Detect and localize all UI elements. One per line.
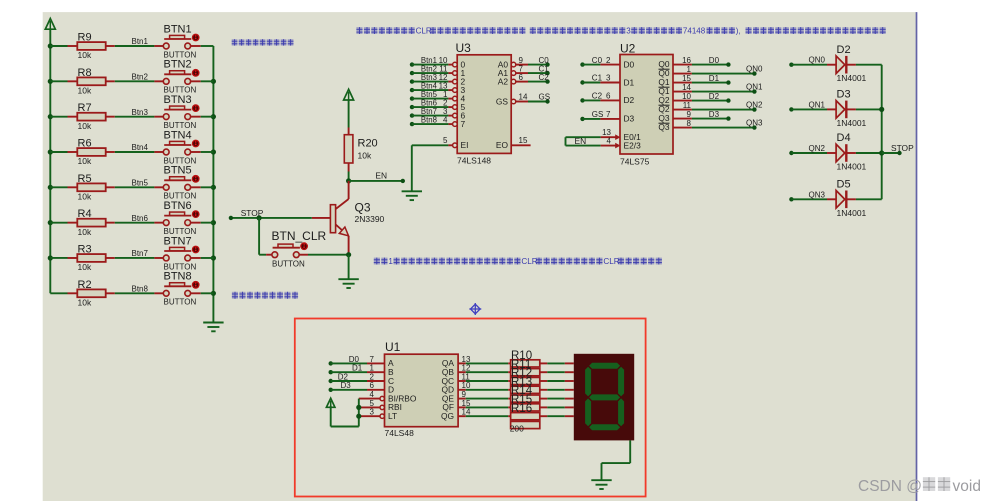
svg-text:R4: R4	[78, 208, 92, 220]
wire row1	[50, 45, 67, 47]
svg-text:R20: R20	[358, 138, 378, 150]
wire U2 Q output 3	[673, 91, 692, 93]
segment B top-right	[618, 367, 624, 397]
wire diode output rail	[881, 65, 883, 200]
wire row5	[50, 186, 67, 188]
svg-text:Btn6: Btn6	[132, 214, 149, 223]
ground button array	[203, 322, 223, 324]
svg-text:EN: EN	[375, 171, 387, 181]
svg-text:3: 3	[370, 408, 375, 417]
svg-text:Btn2: Btn2	[132, 73, 149, 82]
svg-text:9: 9	[462, 390, 467, 399]
button BTN_CLR	[272, 252, 278, 258]
svg-text:11: 11	[462, 372, 471, 381]
resistor R7	[77, 113, 105, 121]
wire U1 output QE	[458, 398, 466, 400]
wire U3 output A1	[511, 71, 516, 76]
wire resistor R16 to display	[540, 415, 548, 417]
svg-text:R9: R9	[78, 32, 92, 44]
power symbol VCC U1	[326, 398, 335, 407]
node right rail row8	[211, 291, 216, 296]
wire left power rail	[49, 29, 51, 293]
svg-text:D1: D1	[352, 364, 363, 373]
node left rail row5	[48, 185, 53, 190]
svg-text:BUTTON: BUTTON	[272, 260, 305, 269]
node left rail row4	[48, 149, 53, 154]
wire U2 D2 input	[580, 98, 584, 102]
svg-text:14: 14	[462, 408, 471, 417]
node rail D3	[879, 107, 884, 112]
resistor R8	[77, 77, 105, 85]
svg-text:Btn4: Btn4	[132, 143, 149, 152]
svg-text:R16: R16	[511, 403, 532, 415]
svg-text:R3: R3	[78, 243, 92, 255]
svg-text:BTN1: BTN1	[164, 23, 192, 35]
node STOP left end	[229, 216, 233, 220]
svg-text:QG: QG	[441, 411, 454, 421]
svg-text:U3: U3	[456, 41, 472, 55]
wire U1 LT/RBI tie	[358, 399, 360, 427]
svg-text:74148: 74148	[683, 27, 706, 36]
annotation high priority	[232, 292, 238, 299]
node EN junction	[346, 178, 351, 183]
svg-text:CSDN @: CSDN @	[858, 478, 922, 495]
IC U2 74LS75	[620, 55, 673, 155]
resistor R5	[77, 183, 105, 191]
svg-text:D2: D2	[837, 44, 851, 56]
svg-text:R2: R2	[78, 279, 92, 291]
wire U1 output QG	[458, 415, 466, 417]
svg-text:QN3: QN3	[746, 118, 763, 127]
svg-text:3: 3	[606, 74, 611, 83]
svg-text:CLR: CLR	[521, 257, 537, 266]
sheet border line	[916, 12, 918, 501]
svg-text:EO: EO	[496, 140, 509, 150]
svg-text:CLR: CLR	[603, 257, 619, 266]
wire U2 Q output 0	[673, 64, 692, 66]
wire STOP right	[882, 152, 900, 154]
svg-text:1N4001: 1N4001	[837, 162, 867, 172]
diode D2	[789, 62, 793, 66]
wire U3 input 4	[410, 96, 414, 100]
wire U1 input D0	[329, 361, 333, 365]
svg-text:D3: D3	[341, 381, 352, 390]
wire resistor R12 to display	[540, 380, 548, 382]
wire emitter to ground	[348, 255, 350, 280]
svg-text:6: 6	[370, 381, 375, 390]
wire U2 Q output 5	[673, 109, 692, 111]
svg-text:D3: D3	[709, 110, 720, 119]
svg-text:BTN_CLR: BTN_CLR	[272, 229, 327, 243]
svg-text:D3: D3	[624, 114, 635, 124]
wire U2 D1 input	[580, 80, 584, 84]
svg-text:BTN8: BTN8	[164, 271, 192, 283]
node right rail row7	[211, 255, 216, 260]
segment E bottom-left	[585, 398, 591, 426]
wire U2 Q output 6	[673, 118, 692, 120]
svg-text:D0: D0	[709, 56, 720, 65]
resistor R3	[77, 254, 105, 262]
diode D4	[789, 151, 793, 155]
resistor R9	[77, 42, 105, 50]
svg-text:74LS48: 74LS48	[385, 428, 415, 438]
power symbol VCC left	[45, 19, 55, 30]
svg-text:QN3: QN3	[809, 190, 826, 199]
svg-text:C2: C2	[592, 92, 603, 101]
wire resistor R11 to display	[540, 371, 548, 373]
svg-text:D2: D2	[624, 95, 635, 105]
svg-text:13: 13	[462, 355, 471, 364]
button BTN6	[163, 220, 169, 226]
svg-text:BTN3: BTN3	[164, 94, 192, 106]
svg-text:10k: 10k	[78, 121, 92, 131]
svg-text:10k: 10k	[358, 151, 372, 161]
svg-text:Btn5: Btn5	[132, 179, 149, 188]
svg-text:EN: EN	[575, 136, 587, 146]
svg-text:1: 1	[687, 65, 692, 74]
node right rail row3	[211, 114, 216, 119]
resistor R20	[344, 135, 353, 163]
transistor Q3	[348, 181, 350, 199]
svg-text:Btn8: Btn8	[132, 285, 149, 294]
wire U2 Q output 7	[673, 127, 692, 129]
segment C bottom-right	[618, 398, 624, 426]
node left rail row6	[48, 220, 53, 225]
IC U3 74LS148	[457, 55, 511, 154]
svg-text:U1: U1	[385, 340, 401, 354]
svg-text:8: 8	[687, 119, 692, 128]
wire VCC to R20	[348, 100, 350, 128]
svg-text:QN0: QN0	[746, 64, 763, 73]
svg-text:Btn1: Btn1	[132, 37, 149, 46]
svg-text:Btn7: Btn7	[132, 249, 149, 258]
svg-text:Q3: Q3	[355, 201, 371, 215]
wire U3 EO pin	[511, 144, 530, 146]
svg-text:4: 4	[607, 137, 612, 146]
svg-text:10: 10	[462, 381, 471, 390]
wire U1 LT pin	[380, 414, 384, 418]
svg-text:GS: GS	[539, 93, 551, 102]
ground Q3	[338, 278, 358, 280]
svg-text:5: 5	[370, 399, 375, 408]
wire U2 Q output 4	[673, 100, 692, 102]
wire EI to ground	[411, 145, 413, 191]
svg-text:R5: R5	[78, 173, 92, 185]
svg-text:D1: D1	[624, 77, 635, 87]
wire U2 D3 input	[580, 117, 584, 121]
wire U2 EN loop	[566, 136, 601, 138]
svg-text:QN2: QN2	[746, 100, 763, 109]
wire U2 D0 input	[580, 62, 584, 66]
svg-text:void: void	[953, 478, 981, 495]
svg-text:3: 3	[626, 27, 631, 36]
svg-text:R8: R8	[78, 67, 92, 79]
wire U1 output QA	[458, 362, 466, 364]
svg-text:BTN5: BTN5	[164, 165, 192, 177]
svg-text:7: 7	[461, 119, 466, 129]
wire U3 input 7	[410, 122, 414, 126]
button BTN8	[163, 290, 169, 296]
wire EN	[349, 180, 403, 182]
wire U3 output A0	[511, 62, 516, 67]
svg-text:15: 15	[462, 399, 471, 408]
svg-text:QN0: QN0	[809, 56, 826, 65]
svg-text:10k: 10k	[78, 192, 92, 202]
svg-text:D2: D2	[338, 372, 349, 381]
svg-text:R6: R6	[78, 137, 92, 149]
svg-text:10k: 10k	[78, 50, 92, 60]
svg-text:QN2: QN2	[809, 144, 826, 153]
svg-text:1: 1	[370, 364, 375, 373]
svg-text:74LS75: 74LS75	[620, 157, 650, 167]
button BTN7	[163, 255, 169, 261]
svg-text:2: 2	[606, 56, 611, 65]
wire row8	[50, 292, 67, 294]
svg-text:74LS148: 74LS148	[457, 156, 491, 166]
svg-text:EI: EI	[461, 140, 469, 150]
svg-text:10: 10	[682, 92, 691, 101]
svg-text:D0: D0	[624, 59, 635, 69]
svg-text:A2: A2	[498, 76, 509, 86]
wire U3 input 1	[410, 71, 414, 75]
annotation step2 line	[356, 27, 362, 34]
svg-text:R7: R7	[78, 102, 92, 114]
button BTN5	[163, 184, 169, 190]
node right rail row4	[211, 149, 216, 154]
svg-text:GS: GS	[592, 110, 604, 119]
svg-text:10k: 10k	[78, 227, 92, 237]
svg-text:C1: C1	[592, 74, 603, 83]
segment A top	[589, 363, 620, 369]
svg-text:5: 5	[443, 136, 448, 145]
button BTN1	[163, 43, 169, 49]
seven segment display	[574, 354, 634, 441]
svg-text:LT: LT	[388, 411, 397, 421]
svg-text:STOP: STOP	[241, 208, 264, 218]
svg-text:BUTTON: BUTTON	[164, 298, 197, 307]
svg-text:D3: D3	[837, 89, 851, 101]
node emitter junction	[346, 252, 351, 257]
svg-text:7: 7	[606, 110, 611, 119]
diode D5	[789, 197, 793, 201]
wire row4	[50, 151, 67, 153]
frame display subcircuit	[295, 319, 646, 497]
wire U2 Q output 1	[673, 73, 692, 75]
wire U3 input 5	[410, 105, 414, 109]
svg-text:15: 15	[682, 74, 691, 83]
svg-text:10k: 10k	[78, 262, 92, 272]
segment F top-left	[585, 367, 591, 397]
wire U3 input 0	[410, 62, 414, 66]
wire U1 output QB	[458, 371, 466, 373]
ground display	[591, 479, 611, 481]
resistor R6	[77, 148, 105, 156]
svg-text:16: 16	[682, 56, 691, 65]
svg-text:D2: D2	[709, 92, 720, 101]
wire row7	[50, 257, 67, 259]
svg-text:QN1: QN1	[746, 82, 763, 91]
wire CLR to emitter	[299, 254, 308, 256]
svg-text:14: 14	[519, 93, 528, 102]
node right rail row2	[211, 79, 216, 84]
svg-text:4: 4	[370, 390, 375, 399]
svg-text:1: 1	[388, 257, 393, 266]
node left rail row3	[48, 114, 53, 119]
wire display to ground	[629, 440, 631, 463]
svg-text:U2: U2	[620, 42, 636, 56]
svg-text:QN1: QN1	[809, 100, 826, 109]
svg-text:10k: 10k	[78, 156, 92, 166]
power symbol VCC Q3	[344, 89, 354, 100]
wire U3 output A2	[511, 79, 516, 84]
wire U1 output QD	[458, 389, 466, 391]
svg-text:11: 11	[683, 101, 692, 110]
wire row6	[50, 222, 67, 224]
svg-text:BTN2: BTN2	[164, 59, 192, 71]
annotation low priority	[232, 39, 238, 45]
wire U1 input D2	[329, 379, 333, 383]
svg-text:BTN7: BTN7	[164, 235, 192, 247]
svg-text:2N3390: 2N3390	[355, 214, 385, 224]
svg-text:),: ),	[736, 27, 741, 36]
resistor R4	[77, 219, 105, 227]
svg-text:BTN6: BTN6	[164, 200, 192, 212]
svg-text:1N4001: 1N4001	[837, 118, 867, 128]
svg-text:14: 14	[682, 83, 691, 92]
svg-text:15: 15	[519, 136, 528, 145]
node right rail row6	[211, 220, 216, 225]
svg-text:STOP: STOP	[891, 143, 914, 153]
wire row2	[50, 80, 67, 82]
svg-text:GS: GS	[496, 96, 509, 106]
button BTN4	[163, 149, 169, 155]
svg-text:Btn3: Btn3	[132, 108, 149, 117]
node rail D4	[879, 150, 884, 155]
svg-text:C2: C2	[539, 73, 550, 82]
svg-text:10k: 10k	[78, 86, 92, 96]
ground U3 EI	[402, 190, 422, 192]
wire U3 input 6	[410, 113, 414, 117]
wire resistor R15 to display	[540, 406, 548, 408]
diode D3	[789, 107, 793, 111]
wire resistor R14 to display	[540, 398, 548, 400]
svg-text:Btn8: Btn8	[421, 116, 437, 125]
svg-text:1N4001: 1N4001	[837, 73, 867, 83]
wire CLR branch	[258, 218, 260, 255]
wire U1 RBI pin	[380, 405, 384, 409]
svg-text:BTN4: BTN4	[164, 129, 192, 141]
resistor pack R10-R16	[511, 360, 540, 367]
node right rail row5	[211, 185, 216, 190]
wire row3	[50, 116, 67, 118]
svg-text:12: 12	[462, 364, 471, 373]
button BTN3	[163, 114, 169, 120]
svg-text:6: 6	[606, 92, 611, 101]
svg-text:1N4001: 1N4001	[837, 208, 867, 218]
wire U3 input 2	[410, 79, 414, 83]
wire resistor R10 to display	[540, 362, 548, 364]
segment G middle	[589, 394, 620, 400]
IC U1 74LS48	[385, 354, 459, 427]
wire U1 BI/RBO pin	[380, 396, 384, 400]
svg-text:7: 7	[370, 355, 375, 364]
svg-text:D1: D1	[709, 74, 720, 83]
wire U1 input D1	[329, 370, 333, 374]
node left rail row2	[48, 79, 53, 84]
wire U2 Q output 2	[673, 82, 692, 84]
button BTN2	[163, 78, 169, 84]
wire resistor R13 to display	[540, 389, 548, 391]
svg-text:E2/3: E2/3	[624, 141, 642, 151]
svg-text:C0: C0	[592, 56, 603, 65]
node left rail row1	[48, 43, 53, 48]
node left rail row7	[48, 255, 53, 260]
wire U3 EI	[412, 144, 449, 146]
svg-text:4: 4	[443, 115, 448, 124]
svg-text:6: 6	[519, 73, 524, 82]
svg-text:CLR: CLR	[416, 27, 432, 36]
svg-text:9: 9	[687, 110, 692, 119]
svg-text:2: 2	[370, 372, 375, 381]
wire R20 to collector node	[348, 163, 350, 172]
svg-text:D4: D4	[837, 132, 851, 144]
svg-text:200: 200	[510, 423, 524, 433]
wire right rail	[212, 46, 214, 323]
resistor R2	[77, 289, 105, 297]
wire U1 output QF	[458, 406, 466, 408]
wire U3 GS output	[511, 99, 516, 104]
svg-text:D5: D5	[837, 179, 851, 191]
svg-text:10k: 10k	[78, 298, 92, 308]
wire U3 input 3	[410, 88, 414, 92]
marker origin	[469, 303, 481, 315]
annotation step1	[374, 258, 380, 265]
segment D bottom	[589, 424, 620, 430]
wire U1 input D3	[329, 388, 333, 392]
wire base STOP	[312, 217, 331, 219]
svg-text:D0: D0	[349, 355, 360, 364]
wire U1 output QC	[458, 380, 466, 382]
node STOP branch	[257, 215, 262, 220]
